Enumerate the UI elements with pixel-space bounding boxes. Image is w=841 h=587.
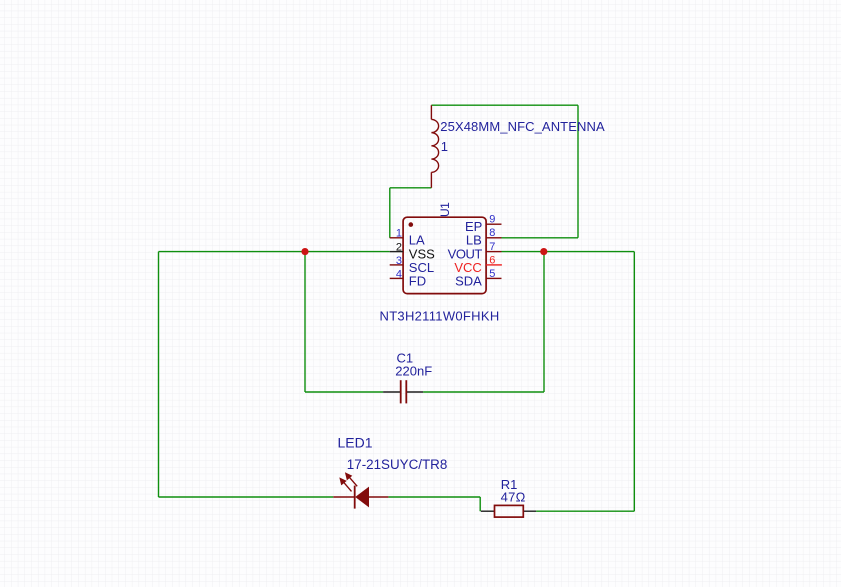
resistor R1 bbox=[481, 505, 536, 517]
pin 6 VCC highlighted bbox=[454, 254, 502, 275]
pin 1 LA bbox=[390, 228, 425, 248]
inductor L1 antenna coil bbox=[431, 105, 438, 188]
pin 5 SDA bbox=[455, 268, 501, 289]
pin 9 EP bbox=[465, 214, 502, 235]
svg-text:U1: U1 bbox=[438, 202, 452, 217]
capacitor C1 bbox=[383, 380, 423, 403]
svg-text:25X48MM_NFC_ANTENNA: 25X48MM_NFC_ANTENNA bbox=[440, 119, 605, 134]
svg-text:SDA: SDA bbox=[455, 273, 482, 288]
junction left bbox=[301, 248, 308, 255]
wire down to pin 1 LA bbox=[389, 188, 391, 238]
svg-text:2: 2 bbox=[396, 242, 402, 254]
wire antenna bottom bbox=[390, 187, 432, 189]
svg-text:17-21SUYC/TR8: 17-21SUYC/TR8 bbox=[347, 457, 447, 472]
wire top of antenna loop bbox=[431, 104, 578, 106]
svg-text:6: 6 bbox=[489, 254, 495, 266]
svg-text:220nF: 220nF bbox=[395, 363, 432, 378]
wire right VOUT net bbox=[502, 251, 635, 253]
pin 3 SCL bbox=[390, 255, 434, 275]
wire right rail bbox=[633, 252, 635, 512]
svg-text:1: 1 bbox=[441, 139, 448, 154]
wire C1 left branch horizontal bbox=[305, 391, 383, 393]
svg-text:9: 9 bbox=[489, 214, 495, 226]
svg-text:1: 1 bbox=[396, 228, 402, 240]
svg-text:4: 4 bbox=[396, 268, 402, 280]
op-amp U1 body NT3H2111 bbox=[403, 217, 486, 293]
junction right bbox=[540, 248, 547, 255]
svg-text:7: 7 bbox=[489, 241, 495, 253]
svg-text:47Ω: 47Ω bbox=[501, 489, 526, 504]
wire R1 to right rail bbox=[536, 510, 634, 512]
svg-text:LED1: LED1 bbox=[338, 435, 373, 451]
svg-text:8: 8 bbox=[489, 227, 495, 239]
wire left rail bbox=[158, 252, 160, 497]
svg-text:5: 5 bbox=[489, 268, 495, 280]
pin 7 VOUT bbox=[448, 241, 502, 262]
svg-text:FD: FD bbox=[409, 273, 426, 288]
pin 4 FD bbox=[390, 268, 426, 288]
wire bottom to LED cathode bbox=[159, 496, 334, 498]
wire antenna to pin 8 LB bbox=[502, 237, 579, 239]
pin 8 LB bbox=[466, 227, 502, 248]
wire C1 right branch horizontal bbox=[423, 391, 544, 393]
wire step down to R1 row bbox=[479, 497, 481, 511]
wire C1 left branch down bbox=[304, 252, 306, 392]
LED D1 bbox=[333, 473, 388, 509]
U1 pin1 marker dot bbox=[409, 222, 414, 227]
wire C1 right branch up bbox=[543, 252, 545, 392]
svg-text:NT3H2111W0FHKH: NT3H2111W0FHKH bbox=[380, 308, 500, 323]
wire LED anode to step bbox=[388, 496, 480, 498]
wire right side of antenna loop bbox=[577, 105, 579, 238]
wire left VSS net bbox=[159, 251, 390, 253]
svg-text:3: 3 bbox=[396, 255, 402, 267]
pin 2 VSS bbox=[390, 242, 435, 262]
